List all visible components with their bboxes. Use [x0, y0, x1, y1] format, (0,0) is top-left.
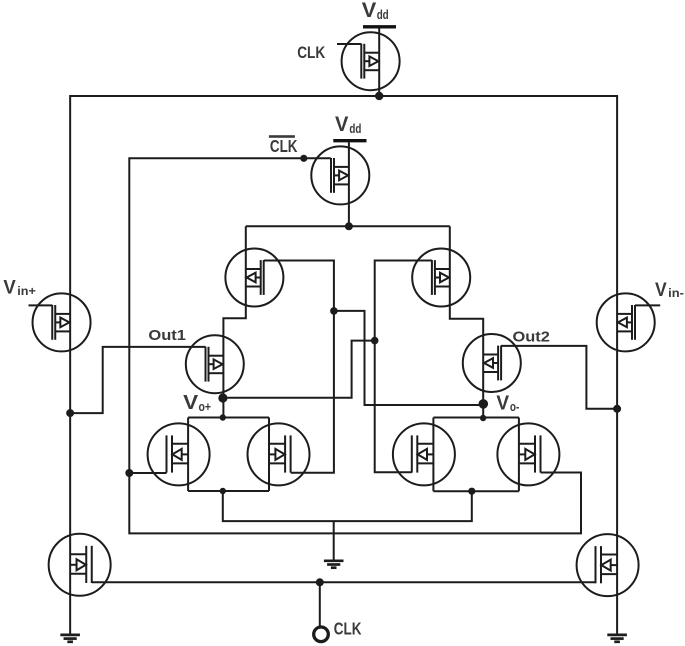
svg-text:in+: in+: [17, 284, 36, 298]
svg-text:V: V: [496, 392, 509, 414]
svg-text:CLK: CLK: [297, 43, 326, 62]
svg-text:Out2: Out2: [513, 328, 550, 345]
svg-text:dd: dd: [349, 121, 361, 136]
svg-text:V: V: [655, 280, 667, 301]
svg-text:dd: dd: [377, 7, 389, 22]
svg-text:V: V: [362, 0, 377, 22]
svg-text:Out1: Out1: [148, 327, 186, 344]
svg-text:V: V: [183, 392, 199, 414]
svg-text:CLK: CLK: [334, 618, 362, 638]
svg-text:o-: o-: [510, 400, 519, 414]
svg-text:V: V: [3, 278, 16, 299]
svg-text:CLK: CLK: [270, 136, 298, 156]
svg-text:V: V: [335, 113, 348, 136]
svg-text:in-: in-: [668, 286, 684, 300]
svg-text:o+: o+: [199, 400, 212, 414]
